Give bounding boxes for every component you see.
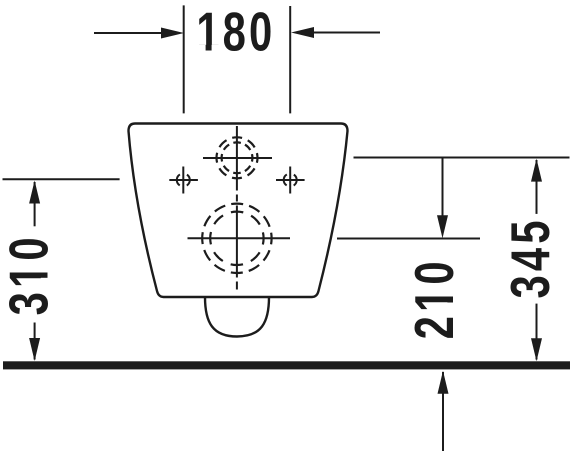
mask: remove foot serif of digit 1 in 210 bbox=[446, 289, 454, 297]
svg-text:210: 210 bbox=[405, 257, 466, 339]
dimension 180 right arrowhead bbox=[291, 27, 314, 38]
svg-text:180: 180 bbox=[196, 2, 275, 63]
dimension 345 upper arrowhead (up) bbox=[531, 159, 542, 182]
vertical centerline segment 4 (short dash) bbox=[236, 282, 238, 290]
dimension 180 left arrowhead bbox=[161, 28, 184, 39]
extension line right fixing hole (vertical) bbox=[289, 6, 291, 113]
dimension 310 upper arrowhead (up) bbox=[29, 181, 40, 204]
vertical centerline segment 3 bbox=[236, 206, 238, 278]
extension line right upper (inlet level) bbox=[354, 157, 570, 159]
left fixing hole dashed circle bbox=[177, 174, 190, 187]
right fixing hole crosshair vertical bbox=[289, 167, 291, 194]
vertical centerline segment 2 (short dash) bbox=[236, 195, 238, 202]
right fixing hole crosshair horizontal bbox=[276, 179, 305, 181]
dimension 310 lower line bbox=[34, 323, 36, 360]
water inlet inner dashed circle bbox=[222, 142, 253, 173]
extension line right middle (drain level) bbox=[337, 238, 480, 240]
drain inner dashed circle bbox=[210, 212, 263, 265]
dimension 345 upper line bbox=[536, 160, 538, 214]
dimension 210 upper leader bbox=[442, 159, 444, 221]
dimension 310 upper line bbox=[34, 182, 36, 226]
toilet body outline bbox=[129, 124, 348, 298]
svg-text:310: 310 bbox=[0, 233, 60, 315]
dimension 345 lower arrowhead (down) bbox=[531, 338, 542, 361]
right fixing hole dashed circle bbox=[284, 174, 297, 187]
dimension 210 lower arrowhead (up) bbox=[438, 371, 449, 394]
left fixing hole crosshair vertical bbox=[182, 167, 184, 194]
water inlet outer dashed circle bbox=[217, 137, 258, 178]
mask: remove foot serif of digit 1 in 310 bbox=[41, 265, 49, 273]
dimension 210 lower leader bbox=[442, 372, 444, 451]
dimension 345 lower line bbox=[536, 304, 538, 360]
drain outer dashed circle bbox=[202, 204, 271, 273]
dimension 180 left leader line bbox=[94, 32, 166, 34]
dimension 310 lower arrowhead (down) bbox=[29, 338, 40, 361]
floor line (wall/finished floor) bbox=[3, 361, 570, 369]
water inlet crosshair horizontal bbox=[203, 157, 272, 159]
dimension 210 upper arrowhead (down) bbox=[437, 215, 448, 238]
dimension 180 right leader line bbox=[309, 32, 380, 34]
mask: remove foot serif of digit 1 in 180 bbox=[198, 45, 206, 52]
vertical centerline segment 1 bbox=[236, 126, 238, 191]
left fixing hole crosshair horizontal bbox=[169, 179, 198, 181]
outlet pipe arc bbox=[205, 297, 269, 337]
extension line left fixing hole (vertical) bbox=[183, 5, 185, 113]
svg-text:345: 345 bbox=[501, 216, 562, 298]
drain crosshair horizontal bbox=[188, 237, 291, 239]
extension line left (310 top reference) bbox=[3, 178, 120, 180]
